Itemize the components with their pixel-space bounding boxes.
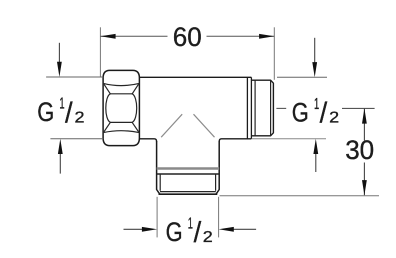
bottom connector chamfer cone line xyxy=(160,191,216,193)
svg-text:1: 1 xyxy=(314,96,319,113)
hex nut facet lines xyxy=(103,83,139,132)
svg-text:G: G xyxy=(37,97,54,127)
left G1/2 label xyxy=(37,95,84,129)
right connector groove line 1 xyxy=(246,77,248,139)
right G1/2 top extension line xyxy=(277,76,327,78)
dimension 60 extension line right xyxy=(273,27,275,80)
dimension 60 extension line left xyxy=(99,27,101,77)
svg-text:G: G xyxy=(292,98,309,128)
bottom G1/2 extension line left xyxy=(156,197,158,238)
right G1/2 leader dash left xyxy=(276,107,286,109)
dimension 30 bottom extension line xyxy=(220,195,380,197)
bottom G1/2 extension line right xyxy=(218,197,220,238)
right G1/2 bottom extension line xyxy=(252,138,326,140)
bottom connector thread root left xyxy=(159,174,161,191)
body arm top edge xyxy=(139,76,251,78)
body arm bottom edge right segment xyxy=(219,139,251,142)
dimension 60 arrowhead right xyxy=(259,34,274,39)
svg-text:2: 2 xyxy=(203,229,213,246)
svg-text:/: / xyxy=(194,217,202,249)
right connector chamfer cone line xyxy=(270,80,272,136)
svg-text:2: 2 xyxy=(329,109,339,126)
bottom connector groove line lower xyxy=(157,173,220,175)
right connector thread start line xyxy=(254,80,256,136)
bottom G1/2 label xyxy=(166,215,213,249)
V mark right xyxy=(194,114,215,137)
svg-text:/: / xyxy=(320,97,328,129)
bottom connector outline xyxy=(157,141,220,194)
svg-text:/: / xyxy=(65,97,73,129)
bottom connector groove line upper xyxy=(157,167,220,170)
right G1/2 down arrow xyxy=(314,38,316,63)
body arm bottom edge left segment xyxy=(139,139,156,142)
bottom G1/2 right arrow xyxy=(232,228,256,230)
svg-text:1: 1 xyxy=(59,95,64,112)
left G1/2 bottom extension line xyxy=(50,138,103,140)
right G1/2 label xyxy=(292,96,340,129)
right connector thread cylinder outline xyxy=(251,80,273,136)
right G1/2 up arrow xyxy=(315,153,317,172)
right G1/2 leader dash right xyxy=(342,107,375,109)
dimension 30 line upper segment with up arrow xyxy=(363,108,365,140)
dimension 60 line left segment xyxy=(100,35,167,37)
bottom G1/2 left arrow xyxy=(124,228,145,230)
bottom connector thread root right xyxy=(215,174,217,191)
V mark left xyxy=(161,114,182,137)
svg-text:1: 1 xyxy=(188,215,193,232)
svg-text:2: 2 xyxy=(75,109,85,126)
dimension 30 line lower segment with down arrow xyxy=(363,163,365,196)
dimension 60 line right segment xyxy=(207,35,275,37)
hex nut outline xyxy=(103,70,139,145)
dimension 60 arrowhead left xyxy=(100,34,115,39)
svg-text:30: 30 xyxy=(345,135,374,165)
left G1/2 down arrow xyxy=(58,43,60,63)
svg-text:60: 60 xyxy=(173,22,202,52)
left G1/2 top extension line xyxy=(46,76,103,78)
left G1/2 up arrow xyxy=(59,153,61,173)
svg-text:G: G xyxy=(166,217,183,247)
right connector groove line 2 xyxy=(250,77,252,139)
